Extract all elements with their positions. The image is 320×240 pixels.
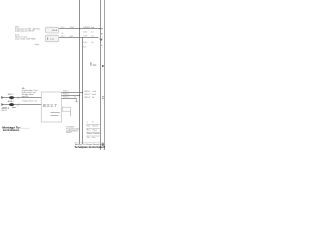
sensor B2 wire (1, 104, 41, 106)
junction wire2 rail L+ (79, 95, 80, 96)
junction rail L+ / 24V wire (79, 28, 80, 29)
sensor B1 body (9, 96, 14, 99)
continuation bracket mark (100, 32, 102, 35)
net labels right of rails row1 (85, 91, 97, 93)
mechanical link B1-B2 dashed (11, 99, 13, 103)
A1 output wire 1 (62, 92, 83, 94)
column mark dots on right border (102, 96, 103, 97)
svg-text:E20.3: E20.3 (63, 97, 69, 99)
fold mark on right border (102, 65, 104, 67)
A1 side tab stub down (70, 111, 72, 116)
device text block below A1 right (66, 126, 80, 134)
wire3 stub foot (76, 100, 78, 103)
wire net 0V horizontal (59, 37, 99, 39)
sensor B2 body (9, 103, 14, 106)
device label block above A1 (22, 87, 38, 98)
svg-text:24V: 24V (15, 26, 19, 28)
revision table bottom right (86, 121, 101, 139)
cable tick row1 (18, 97, 20, 100)
A1 side tab connector (62, 107, 71, 111)
svg-text:24V1: 24V1 (70, 27, 76, 29)
wire spec row 0,5 BK (83, 32, 94, 34)
svg-text:E20.2: E20.2 (63, 94, 69, 96)
junction wire1 rail M (82, 92, 83, 93)
net labels right of rails row3 (85, 97, 95, 99)
svg-text:-B20.2: -B20.2 (7, 101, 14, 103)
note tail line (19, 127, 30, 129)
svg-text:2x0,5: 2x0,5 (1, 110, 7, 112)
interruption point reference mid right (90, 62, 96, 65)
frame border right inner line (100, 0, 102, 150)
svg-text:4mm: 4mm (35, 44, 40, 46)
sensor B1 wire (1, 97, 41, 99)
PLC input card A1 box (41, 92, 61, 122)
svg-text:-B20.1: -B20.1 (7, 94, 14, 96)
svg-text:i.O: i.O (51, 38, 54, 41)
wire 3 drop stub (76, 99, 78, 102)
continuation arrow for 0V (99, 39, 103, 42)
svg-text:E20.1: E20.1 (85, 91, 91, 93)
svg-text:Klappe offen: Klappe offen (22, 94, 35, 96)
handwritten note bottom left (2, 126, 21, 132)
svg-text:E20.3: E20.3 (85, 97, 91, 99)
power rail L+ (24V) vertical (79, 0, 81, 144)
svg-text:Name: Name (92, 126, 98, 128)
svg-text:6!3:2.7: 6!3:2.7 (43, 103, 57, 108)
svg-text:6ES7: 6ES7 (66, 132, 72, 134)
sensor B2 plug symbol (1, 103, 3, 105)
svg-text:Eingabemodul: Eingabemodul (66, 128, 80, 130)
continuation small dash (100, 44, 102, 47)
net name 24V text at right margin (83, 27, 95, 29)
sensor B1 plug symbol (1, 96, 3, 98)
svg-text:24VDC: 24VDC (83, 27, 90, 29)
wire net 24V horizontal (59, 28, 101, 30)
A1 pin designation glyphs inside top (43, 103, 57, 108)
terminal device F1 box (45, 27, 59, 33)
svg-text:E20.2: E20.2 (85, 94, 91, 96)
svg-text:E20.1: E20.1 (63, 91, 69, 93)
continuation mark at border for 24V (99, 27, 103, 30)
power rail M (0V) vertical (82, 38, 84, 145)
A1 output wire 3 (62, 98, 77, 100)
label block power supply feed (left of F1) (15, 26, 41, 32)
svg-text:ET200S: ET200S (66, 126, 74, 128)
wire label small tick between wires (62, 32, 63, 35)
A1 output wire 2 (62, 95, 80, 97)
title block bottom bar (75, 143, 113, 149)
label block switch feed (left of S1) (15, 34, 36, 40)
wire spec row 0,75 BU (83, 36, 94, 38)
svg-text:Schaltplan EndschalterE20.7: Schaltplan EndschalterE20.7 (75, 145, 105, 149)
terminal device S1 box (45, 35, 59, 42)
svg-text:Kabel 2x0,5: Kabel 2x0,5 (23, 101, 35, 103)
wire spec row last (83, 46, 86, 48)
wire spec row 1,5 GNYE (83, 42, 94, 44)
svg-text:-W20.1: -W20.1 (1, 107, 9, 110)
wire label right of B2 (23, 101, 39, 103)
frame border right outer line (104, 0, 106, 150)
net labels right of rails row2 (85, 94, 97, 96)
cable W20 designation (1, 107, 15, 112)
cable tick row2 (18, 104, 20, 107)
A1 inner text lines lower right (51, 112, 60, 116)
